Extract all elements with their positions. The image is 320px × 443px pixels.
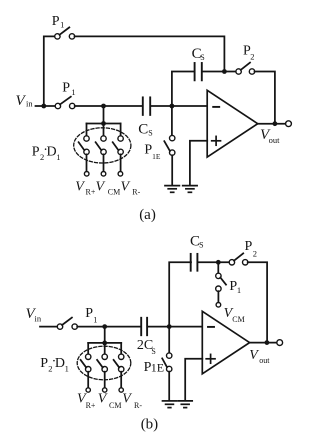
ground under P1E (b) [163,401,177,408]
svg-text:1E: 1E [152,152,161,161]
switch DAC right (a) [113,136,124,155]
svg-text:CM: CM [232,315,244,324]
svg-text:in: in [26,99,33,109]
svg-text:P: P [40,356,48,371]
label VR+ (b) [77,391,96,409]
wire DAC vertical tap (b) [104,327,106,343]
wire DAC bus bar (b) [88,342,121,344]
wire DAC bus bar (a) [87,123,121,125]
wire P2 to output (b) [248,262,267,340]
svg-text:P: P [245,239,253,254]
svg-text:R+: R+ [86,188,96,197]
label VR- (b) [122,391,142,409]
wire DAC vertical tap (a) [103,106,105,124]
label P1 (input switch, b) [85,306,97,324]
wire DAC drop right (b) [120,343,122,354]
terminal VCM circle (b) [103,388,107,392]
svg-text:1: 1 [93,314,97,324]
svg-text:V: V [121,179,131,194]
label Cs (input cap, a) [138,121,152,137]
op-amp U2 (b) [202,311,249,374]
label Cs (feedback cap, a) [192,46,205,62]
node summing junction dot (b) [167,324,172,329]
svg-text:S: S [148,129,152,138]
svg-text:S: S [199,241,203,250]
wire output (a) [258,123,286,125]
label P1 (top switch, a) [52,14,65,30]
label VR- (a) [121,179,141,196]
svg-text:1: 1 [60,20,64,30]
ground under plus input (a) [183,186,197,193]
wire plus input to ground (a) [190,141,207,186]
switch DAC left (b) [81,354,91,372]
wire switch to 2Cs cap (b) [77,326,140,328]
svg-text:R-: R- [132,188,140,197]
label VR+ (a) [75,179,96,196]
wire DAC drop left (a) [86,124,88,137]
wire plus input to ground (b) [185,359,202,401]
node feedback junction dot (a) [222,69,227,74]
svg-text:D: D [55,356,65,371]
wire to VR+ terminal (a) [86,154,88,171]
wire Vin lead (b) [40,326,58,328]
svg-text:2: 2 [253,248,257,258]
node feedback junction dot (b) [216,260,221,265]
label P2 (a) [243,44,254,62]
terminal VR- circle (a) [118,172,123,177]
switch P1 top (a) [55,27,75,39]
wire feedback left leg (b) [169,262,191,326]
wire to VR+ terminal (b) [87,372,89,388]
label 2Cs (b) [137,338,156,356]
wire DAC drop mid (a) [103,124,105,137]
node dot DAC tap (b) [102,324,107,329]
svg-text:D: D [47,145,57,160]
svg-text:P: P [85,306,93,321]
svg-text:CM: CM [108,188,120,197]
svg-text:S: S [200,53,204,62]
terminal Vout circle (a) [286,121,292,127]
svg-text:R+: R+ [86,401,96,410]
label P2 (b) [245,239,258,258]
svg-text:V: V [98,391,108,406]
node Vin label (a) [16,93,34,109]
svg-text:S: S [151,347,155,356]
terminal VCM circle (b) [216,303,221,308]
terminal VR+ circle (b) [86,388,90,392]
svg-text:in: in [35,314,42,324]
label VCM (b) [224,306,245,324]
svg-text:P: P [62,81,70,96]
label P1E (b) [144,360,164,375]
svg-text:V: V [96,179,106,194]
DAC dashed ellipse (b) [77,346,131,380]
label Vout (a) [260,127,280,145]
label Vout (b) [249,348,270,365]
label P2-D1 (a) [32,143,61,162]
wire cap to op-amp minus (b) [148,326,203,328]
label VCM (b) [98,391,122,409]
svg-text:V: V [249,348,259,363]
capacitor 2Cs (b) [141,318,147,335]
ground under P1E (a) [165,186,179,193]
wire P2 to output (a) [255,72,275,122]
wire output (b) [250,342,277,344]
svg-text:(b): (b) [141,417,159,433]
node summing junction dot (a) [170,104,175,109]
switch P1E (b) [162,327,172,401]
svg-text:out: out [269,135,281,145]
wire DAC drop mid (b) [104,343,106,354]
svg-text:P: P [52,14,60,29]
switch DAC left (a) [79,136,90,155]
svg-text:1: 1 [237,285,241,295]
svg-text:V: V [16,93,27,109]
svg-text:2: 2 [250,51,254,61]
wire top rail to feedback node (a) [75,36,225,69]
label Cs (feedback cap, b) [190,234,204,250]
wire left vertical to top P1 (a) [44,36,55,106]
node DAC bus dot (a) [101,121,106,126]
wire to VCM terminal (a) [103,154,105,171]
svg-text:1: 1 [65,364,69,374]
svg-text:V: V [122,391,132,406]
switch DAC mid (b) [97,354,107,372]
wire feedback left leg (a) [172,72,194,107]
switch P2 (a) [236,63,255,75]
label P1 (input switch, a) [62,81,75,97]
svg-text:P: P [32,145,40,160]
switch DAC right (b) [114,354,124,372]
node Vin label (b) [26,306,42,324]
wire feedback right leg (a) [203,71,237,73]
DAC dashed ellipse (a) [74,128,131,163]
label VCM (a) [96,179,121,196]
terminal Vout circle (b) [277,340,283,346]
node dot DAC tap (a) [101,104,106,109]
wire cap to op-amp minus input (a) [151,105,207,107]
switch P1 bottom (a) [55,97,75,109]
label P1E (a) [144,142,160,160]
node DAC bus dot (b) [102,341,107,346]
svg-text:out: out [259,356,270,365]
label P2-D1 (b) [40,355,69,374]
wire DAC drop right (a) [120,124,122,137]
node output dot (a) [273,121,278,126]
terminal VR- circle (b) [119,388,123,392]
svg-text:CM: CM [109,401,121,410]
svg-text:(a): (a) [139,207,156,223]
wire switch to input cap (a) [75,105,142,107]
node output dot (b) [265,340,270,345]
op-amp U1 (a) [207,90,258,157]
wire feedback right leg (b) [198,261,229,263]
terminal VR+ circle (a) [84,172,89,177]
svg-text:C: C [138,121,148,137]
wire to VCM terminal (b) [104,372,106,388]
wire Vin lead (a) [36,105,56,107]
capacitor Cs feedback (a) [195,63,202,80]
label P1 (VCM switch, b) [229,279,241,295]
wire DAC drop left (b) [87,343,89,354]
wire to VR- terminal (a) [120,154,122,171]
svg-text:V: V [75,179,85,194]
svg-text:1: 1 [56,152,60,162]
switch P1 input (b) [57,318,77,330]
switch P1 to VCM (b) [216,265,226,303]
svg-text:1E: 1E [151,360,164,374]
terminal VCM circle (a) [101,172,106,177]
ground under plus input (b) [178,401,192,408]
svg-text:R-: R- [134,401,142,410]
wire to VR- terminal (b) [120,372,122,388]
switch DAC mid (a) [96,136,107,155]
node junction dot at Vin (a) [41,104,46,109]
svg-text:1: 1 [71,87,75,97]
switch P1E (a) [164,106,175,185]
switch P2 (b) [229,253,248,265]
capacitor Cs feedback (b) [191,254,198,271]
capacitor Cs input (a) [143,97,150,115]
